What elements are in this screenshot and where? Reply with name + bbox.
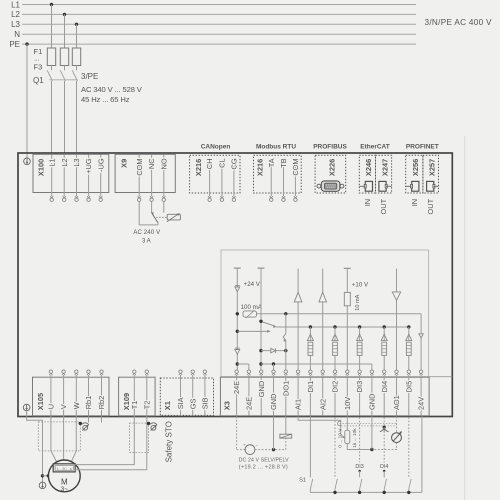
wire Rb2 stub [101, 416, 103, 422]
wire 24E external [236, 416, 238, 449]
terminal X3:DO1 [284, 373, 287, 375]
rail +24V cap [234, 267, 241, 269]
connector X226 D-sub [321, 181, 340, 191]
node GND diode [259, 349, 262, 352]
svg-text:AC 340 V ... 528 V: AC 340 V ... 528 V [81, 85, 143, 94]
svg-text:3/PE: 3/PE [81, 72, 98, 81]
svg-text:DI3: DI3 [355, 381, 364, 393]
terminal X3:AI1 [297, 373, 300, 375]
wire X216 pin TB [283, 162, 285, 196]
wire DI3 bottom [359, 489, 361, 492]
source DC 24V [245, 445, 255, 455]
terminal block X3 [220, 377, 429, 416]
wire DI2 external [334, 417, 336, 477]
shield sensor cable [130, 423, 149, 453]
wire DO1 external [285, 416, 287, 434]
terminal X105:Rb2 [100, 373, 103, 375]
wire T1 [75, 416, 134, 465]
fuse F1 [47, 48, 55, 66]
svg-text:+: + [243, 442, 246, 447]
svg-text:SIA: SIA [176, 397, 185, 409]
svg-text:X247: X247 [380, 159, 389, 176]
wire GND external [273, 416, 275, 449]
wire L2 drop [64, 14, 66, 48]
terminal X105:V [62, 373, 65, 375]
svg-text:NO: NO [159, 158, 168, 169]
svg-text:N: N [14, 30, 20, 39]
svg-text:IN: IN [410, 199, 419, 206]
wire X3 pin AI1 [297, 375, 299, 415]
switch DI3 [360, 479, 362, 489]
switch S1 [310, 479, 312, 489]
svg-text:DI4: DI4 [380, 381, 389, 393]
wire U to motor [51, 416, 58, 464]
svg-text:X216: X216 [194, 159, 203, 176]
mains line L2 [22, 13, 416, 15]
terminal X3:DI4 [383, 373, 386, 375]
terminal X3:10V [346, 373, 349, 375]
wire X105 pin Rb1 [88, 375, 90, 415]
bus switch common [310, 491, 422, 493]
svg-text:+24 V: +24 V [244, 281, 261, 288]
node DI3 switch [358, 470, 360, 472]
svg-text:CANopen: CANopen [201, 143, 231, 150]
svg-text:CG: CG [230, 158, 239, 169]
mains line N [22, 33, 416, 35]
wire X100 pin L3 [76, 155, 78, 197]
wire relay riser [157, 223, 159, 225]
svg-text:DO1: DO1 [281, 381, 290, 396]
wire X105 pin W [75, 375, 77, 415]
svg-text:DI1: DI1 [306, 381, 315, 393]
rail GND link [261, 363, 372, 365]
relay contact blade [152, 213, 158, 223]
wire fuse to contactor [64, 66, 66, 71]
wire X3 pin DI5 [408, 375, 410, 415]
terminal X109:T2 [145, 373, 148, 375]
wire COM down [138, 202, 140, 225]
svg-text:X246: X246 [364, 159, 373, 176]
potentiometer wiper [341, 435, 344, 438]
switch PNP/NPN blade [263, 322, 276, 326]
wire X100 pin -UG [100, 155, 102, 197]
svg-text:L3: L3 [11, 20, 20, 29]
switch DI4 [384, 479, 386, 489]
svg-text:DI5: DI5 [404, 381, 413, 393]
diode freewheel [271, 348, 276, 353]
node GND switch [259, 320, 262, 323]
svg-text:COM: COM [135, 158, 144, 175]
wire X3 pin 24V [420, 375, 422, 415]
wire contactor to drive [64, 81, 66, 153]
optocoupler DI5 [407, 325, 410, 328]
page edge right [464, 136, 466, 500]
svg-text:IN: IN [363, 199, 372, 206]
wire X9 pin NO [163, 155, 165, 197]
svg-text:L1: L1 [11, 0, 20, 9]
relay actuator [167, 214, 180, 220]
wire X3 pin GND [273, 375, 275, 415]
connector X257 box [423, 155, 439, 193]
node L2 junction [63, 13, 66, 16]
contactor Q1 blade [72, 70, 77, 81]
wire source to GND [255, 449, 286, 451]
node 24E link [236, 362, 239, 365]
svg-text:(+19.2 ... +28.8 V): (+19.2 ... +28.8 V) [239, 465, 288, 471]
wire X3 pin DI4 [383, 375, 385, 415]
svg-text:DI2: DI2 [331, 381, 340, 393]
wire X256 IN [406, 185, 412, 187]
contactor Q1 blade [60, 70, 65, 81]
rail 24V switched [257, 313, 422, 315]
svg-text:GND: GND [269, 394, 278, 410]
wire PE motor link [43, 475, 49, 477]
wire X246 IN [359, 185, 365, 187]
clamp motor shield [82, 423, 89, 425]
node bus [358, 491, 361, 494]
wire AI1 external [298, 416, 341, 434]
relay actuator link [156, 216, 166, 218]
rail 10V cap [344, 267, 351, 269]
terminal X1:GS [191, 373, 194, 375]
svg-text:EtherCAT: EtherCAT [360, 143, 390, 150]
svg-text:10 mA: 10 mA [355, 294, 361, 310]
node bus [407, 491, 410, 494]
svg-text:F1: F1 [34, 47, 43, 56]
clamp sensor shield [150, 423, 157, 425]
wire L3 drop [76, 24, 78, 48]
connector X247 RJ45 [379, 181, 386, 191]
internal circuit outline [221, 250, 429, 377]
connector X246 box [359, 155, 375, 193]
node DI4 switch [383, 470, 385, 472]
terminal X216:TB [282, 196, 285, 198]
wire DI1 external [309, 416, 311, 477]
svg-text:TB: TB [279, 158, 288, 168]
terminal X3:DI1 [309, 373, 312, 375]
wire GND3 drop [371, 364, 373, 370]
wire DI5 bottom [408, 489, 410, 492]
wire pair A [340, 422, 397, 424]
node 24E/100mA [236, 312, 239, 315]
wire X1 pin SIA [180, 375, 182, 415]
wire AI1 internal [297, 269, 299, 370]
wire X105 pin V [63, 375, 65, 415]
svg-text:3 A: 3 A [142, 238, 151, 244]
connector X257 RJ45 [427, 181, 434, 191]
motor M1 circle [48, 460, 80, 492]
svg-text:Safety STO: Safety STO [164, 421, 173, 462]
svg-text:−: − [255, 442, 258, 447]
wire DI3 external [359, 417, 361, 462]
wire X3 pin 24E [236, 375, 238, 415]
node bus [383, 491, 386, 494]
wire X3 pin DI1 [309, 375, 311, 415]
meter AO1 [392, 433, 402, 443]
terminal X1:SIB [203, 373, 206, 375]
connector X247 box [376, 155, 392, 193]
svg-text:S1: S1 [299, 477, 306, 483]
svg-text:T2: T2 [142, 401, 151, 410]
op-amp AI1 [294, 292, 302, 302]
shield motor cable [38, 422, 80, 451]
wire X3 pin AI2 [322, 375, 324, 415]
wire 24V pin drop [420, 314, 422, 370]
wire pot to GND [347, 444, 372, 450]
terminal block X109 [119, 377, 156, 416]
svg-text:L2: L2 [60, 158, 69, 166]
svg-text:W: W [72, 402, 81, 409]
wire DI4 external [383, 417, 385, 462]
svg-text:L3: L3 [72, 158, 81, 166]
svg-text:Modbus RTU: Modbus RTU [256, 143, 296, 150]
svg-text:V: V [59, 404, 68, 409]
wire X105 pin Rb2 [101, 375, 103, 415]
actuation arrow [237, 330, 268, 332]
wire X105 pin U [50, 375, 52, 415]
svg-text:X216: X216 [256, 159, 265, 176]
wire AO1 external [396, 416, 398, 432]
transistor DO1 driver [283, 334, 286, 341]
mains line PE [22, 43, 416, 45]
svg-text:Rb1: Rb1 [84, 396, 93, 410]
wire pair B [341, 425, 397, 427]
wire X216 pin CL [221, 162, 223, 196]
svg-text:X105: X105 [36, 393, 45, 410]
svg-text:X1: X1 [163, 401, 172, 410]
wire X1 pin GS [192, 375, 194, 415]
terminal X1:SIA [179, 373, 182, 375]
wire DI5 external [408, 417, 410, 477]
wire X3 pin GND [260, 375, 262, 415]
svg-text:-UG: -UG [96, 158, 105, 172]
node bus [333, 491, 336, 494]
node GND link [259, 362, 262, 365]
wire X3 pin 10V [346, 375, 348, 415]
terminal X100:L3 [75, 196, 78, 198]
switch DI5 [409, 479, 411, 489]
wire X9 pin COM [138, 155, 140, 197]
svg-text:X100: X100 [36, 159, 45, 176]
svg-text:100 mA: 100 mA [241, 304, 263, 311]
connector X256 RJ45 [412, 181, 419, 191]
terminal X9:COM [138, 196, 141, 198]
svg-text:AI2: AI2 [318, 399, 327, 410]
wire X3 pin DI2 [334, 375, 336, 415]
svg-text:NC: NC [147, 158, 156, 169]
svg-text:24E: 24E [245, 397, 254, 410]
terminal X3:24E [247, 373, 250, 375]
wire DO1 lower [285, 340, 287, 370]
line X3 top extension [429, 376, 452, 378]
terminal X3:24E [235, 373, 238, 375]
wire X109 pin T2 [146, 375, 148, 415]
svg-text:45 Hz ... 65 Hz: 45 Hz ... 65 Hz [81, 95, 130, 104]
wire PE to motor [27, 411, 43, 482]
svg-text:DI3: DI3 [355, 464, 363, 470]
wire X216 pin CH [209, 162, 211, 196]
connector X216 CANopen box [190, 155, 240, 193]
svg-text:X9: X9 [119, 159, 128, 168]
motor terminal box [53, 464, 75, 472]
sensor tap DI4 [383, 426, 386, 429]
resistor 10V limit [344, 292, 350, 305]
terminal X3:GND [260, 373, 263, 375]
wire X216 pin COM [294, 162, 296, 196]
terminal X105:W [75, 373, 78, 375]
wire X216 pin TA [270, 162, 272, 196]
wire DI3 to switch [359, 471, 361, 477]
svg-text:X3: X3 [222, 401, 231, 410]
wire PE drop [26, 44, 28, 158]
wire X3 pin 24E [248, 375, 250, 415]
contactor Q1 linkage [49, 79, 78, 81]
connector X246 RJ45 [365, 181, 372, 191]
fuse F3 [72, 48, 80, 66]
svg-text:DC 24 V SELV/PELV: DC 24 V SELV/PELV [239, 457, 289, 463]
svg-text:24V: 24V [417, 397, 426, 410]
terminal X3:DI2 [333, 373, 336, 375]
wire W to motor [70, 416, 76, 464]
svg-text:1k ... 10k: 1k ... 10k [352, 428, 358, 448]
svg-text:L1: L1 [47, 158, 56, 166]
node PE motor 2 [47, 474, 50, 477]
wire X257 OUT [434, 185, 439, 187]
terminal block X9 [115, 154, 175, 192]
wire NC down [151, 202, 153, 213]
wire DI2 bottom [334, 489, 336, 492]
svg-text:PROFINET: PROFINET [406, 143, 439, 150]
relay blade arrow [151, 212, 154, 215]
svg-text:GND: GND [257, 381, 266, 397]
svg-text:X257: X257 [427, 159, 436, 176]
op-amp AI2 [319, 292, 327, 302]
ground symbol motor [39, 482, 46, 489]
wire X9 pin NC [151, 155, 153, 197]
node sensor shield [147, 422, 150, 425]
wire GND internal [260, 268, 262, 370]
terminal X100:-UG [99, 196, 102, 198]
terminal X216:COM [294, 196, 297, 198]
wire DO1 upper [285, 314, 287, 334]
fuse 100mA PTC [243, 311, 257, 317]
wire X3 pin DO1 [285, 375, 287, 415]
terminal X105:Rb1 [87, 373, 90, 375]
wire 10V internal [346, 268, 348, 370]
wire diode row [261, 350, 286, 352]
wire X216 pin CG [233, 162, 235, 196]
node L1 junction [50, 3, 53, 6]
terminal X100:L1 [50, 196, 53, 198]
wire X100 pin L2 [63, 155, 65, 197]
diode D2 on 24E [235, 347, 240, 349]
svg-text:OUT: OUT [426, 198, 435, 214]
terminal X3:DI5 [407, 373, 410, 375]
wire contactor to drive [51, 81, 53, 153]
optocoupler DI2 [333, 325, 336, 328]
svg-text:Q1: Q1 [33, 76, 44, 85]
wire V to motor [63, 416, 65, 464]
wire X100 pin L1 [51, 155, 53, 197]
svg-text:10V: 10V [343, 397, 352, 410]
rail DI common [276, 326, 408, 328]
terminal X3:AO1 [395, 373, 398, 375]
svg-text:COM: COM [291, 158, 300, 175]
wire 24V external [421, 416, 423, 492]
wire fuse to contactor [76, 66, 78, 71]
connector X256 box [406, 155, 423, 193]
wire relay bottom [139, 224, 158, 226]
wire fuse to contactor [51, 66, 53, 71]
svg-text:PROFIBUS: PROFIBUS [313, 143, 347, 150]
wire 24E2 drop [248, 364, 250, 370]
node GND2 link [272, 362, 275, 365]
ground symbol top-left [24, 158, 31, 165]
connector X226 PROFIBUS box [315, 155, 346, 193]
wire GND2 drop [273, 364, 275, 370]
wire 10V external [346, 416, 348, 430]
svg-text:AO1: AO1 [392, 395, 401, 410]
wire 24E to source [237, 449, 246, 451]
wire NO down [163, 202, 165, 213]
terminal X216:CG [232, 196, 235, 198]
svg-text:24E: 24E [232, 381, 241, 394]
svg-text:L2: L2 [11, 10, 20, 19]
svg-text:0 ... 10 V: 0 ... 10 V [337, 428, 343, 448]
svg-text:AI1: AI1 [294, 399, 303, 410]
terminal X109:T1 [133, 373, 136, 375]
wire DI4 bottom [383, 489, 385, 492]
wire 24E internal [236, 268, 238, 370]
terminal X216:TA [270, 196, 273, 198]
terminal X216:CH [208, 196, 211, 198]
connector X1 STO box [160, 378, 213, 415]
svg-text:TA: TA [267, 158, 276, 167]
node L3 junction [75, 23, 78, 26]
svg-text:X226: X226 [328, 159, 337, 176]
node PE junction [25, 42, 28, 45]
wire X100 pin +UG [88, 155, 90, 197]
node motor shield [79, 422, 82, 425]
terminal X3:DI3 [358, 373, 361, 375]
svg-text:GND: GND [368, 394, 377, 410]
wire X3 pin DI3 [359, 375, 361, 415]
node GND external [272, 448, 275, 451]
optocoupler DI4 [383, 325, 386, 328]
svg-text:+10 V: +10 V [352, 281, 369, 288]
optocoupler DI1 [309, 325, 312, 328]
svg-text:F3: F3 [34, 63, 43, 72]
relay coil K1 [280, 434, 292, 438]
svg-text:CH: CH [205, 158, 214, 169]
switch DI2 [335, 479, 337, 489]
terminal X105:U [49, 373, 52, 375]
svg-text:U: U [47, 404, 56, 409]
svg-text:...: ... [34, 57, 39, 63]
svg-text:+UG: +UG [84, 158, 93, 174]
terminal block X105 [33, 377, 110, 416]
svg-text:PE: PE [9, 40, 20, 49]
optocoupler DI3 [358, 325, 361, 328]
terminal X216:CL [220, 196, 223, 198]
rail GND cap [258, 267, 265, 269]
terminal X3:GND [370, 373, 373, 375]
cable curl [338, 421, 341, 426]
diode on 24V pin [419, 334, 423, 338]
svg-text:GS: GS [188, 399, 197, 410]
inverter device outline [18, 153, 452, 417]
svg-text:s: s [70, 466, 72, 471]
